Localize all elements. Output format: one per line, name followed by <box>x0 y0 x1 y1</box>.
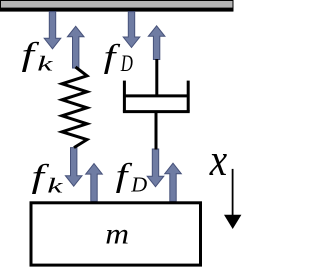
svg-text:f: f <box>116 157 133 194</box>
svg-text:x: x <box>209 135 227 186</box>
svg-text:D: D <box>120 52 133 77</box>
svg-text:k: k <box>37 53 53 76</box>
svg-text:D: D <box>130 173 147 196</box>
svg-text:f: f <box>104 38 121 75</box>
svg-text:m: m <box>105 217 129 250</box>
svg-text:k: k <box>47 175 63 198</box>
